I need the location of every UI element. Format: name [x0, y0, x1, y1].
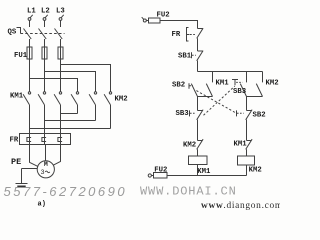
svg-text:L1: L1 — [27, 8, 36, 16]
svg-text:SB1: SB1 — [178, 53, 192, 61]
svg-text:QS: QS — [8, 28, 17, 36]
svg-text:WWW.DOHAI.CN: WWW.DOHAI.CN — [140, 185, 237, 199]
svg-text:KM1: KM1 — [10, 92, 24, 100]
svg-text:M: M — [44, 161, 48, 168]
svg-text:KM2: KM2 — [115, 95, 128, 103]
svg-text:KM2: KM2 — [266, 80, 279, 88]
svg-text:SB2: SB2 — [172, 82, 185, 90]
svg-text:SB3: SB3 — [176, 110, 190, 118]
svg-text:KM1: KM1 — [216, 80, 230, 88]
svg-text:SB2: SB2 — [253, 112, 266, 120]
svg-text:FU2: FU2 — [154, 166, 167, 174]
svg-text:5577-62720690: 5577-62720690 — [4, 184, 128, 199]
svg-text:FR: FR — [172, 31, 181, 39]
svg-text:3: 3 — [41, 169, 45, 177]
svg-text:www.diangon.com: www.diangon.com — [201, 201, 280, 210]
svg-text:FR: FR — [10, 136, 19, 144]
svg-text:a): a) — [38, 201, 46, 209]
svg-text:KM1: KM1 — [197, 168, 211, 176]
svg-text:PE: PE — [11, 157, 21, 167]
svg-text:KM2: KM2 — [183, 142, 196, 150]
svg-text:KM2: KM2 — [249, 167, 262, 175]
svg-text:FU2: FU2 — [157, 12, 170, 20]
svg-text:L2: L2 — [41, 8, 50, 16]
svg-text:SB3: SB3 — [233, 88, 247, 96]
svg-text:KM1: KM1 — [234, 141, 248, 149]
svg-text:FU1: FU1 — [14, 52, 28, 60]
svg-text:L3: L3 — [56, 8, 65, 16]
